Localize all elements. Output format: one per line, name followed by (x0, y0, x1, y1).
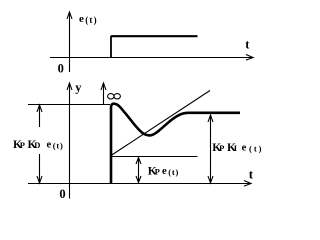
top graph: e axis arrowhead (67, 12, 72, 19)
Kp e(t) double arrow lower head (136, 176, 141, 183)
svg-text:0: 0 (59, 187, 65, 201)
svg-text:e(t): e(t) (79, 13, 98, 25)
top graph: time axis arrowhead (246, 55, 253, 61)
infinity arrow head (101, 83, 106, 90)
svg-text:KPKDe(t): KPKDe(t) (13, 139, 64, 151)
Kp e(t) double arrow upper head (136, 158, 141, 165)
Kp K1 e(t) double arrow shaft (210, 116, 212, 183)
peak reference level line (28, 104, 110, 106)
Kp K1 e(t) double arrow lower head (208, 176, 213, 183)
bottom graph: time axis arrowhead (244, 181, 251, 187)
left double arrow: upper head (37, 105, 42, 112)
Kp e(t) double arrow shaft (138, 158, 140, 183)
bottom graph: horizontal time axis (28, 183, 250, 185)
left double arrow: lower head (37, 176, 42, 183)
response curve: impulse spike, dip and settling (111, 104, 240, 184)
tangent ramp line (111, 91, 210, 156)
svg-text:KPe(t): KPe(t) (148, 165, 179, 177)
svg-text:0: 0 (58, 62, 64, 76)
top graph: vertical e axis (69, 12, 71, 72)
Kp reference level line (111, 156, 198, 158)
Kp K1 e(t) double arrow upper head (208, 115, 213, 122)
infinity symbol (108, 94, 114, 99)
left double arrow: upper shaft (39, 106, 41, 128)
infinity arrow shaft (103, 84, 105, 104)
svg-text:t: t (249, 166, 254, 181)
bottom graph: y axis arrowhead (67, 83, 72, 90)
step input signal: rising edge (110, 36, 112, 58)
svg-text:y: y (75, 81, 82, 95)
left double arrow: lower shaft (39, 154, 41, 183)
top graph: horizontal time axis (50, 57, 252, 59)
bottom graph: vertical y axis (69, 83, 71, 199)
step input signal: top level line (111, 35, 198, 37)
